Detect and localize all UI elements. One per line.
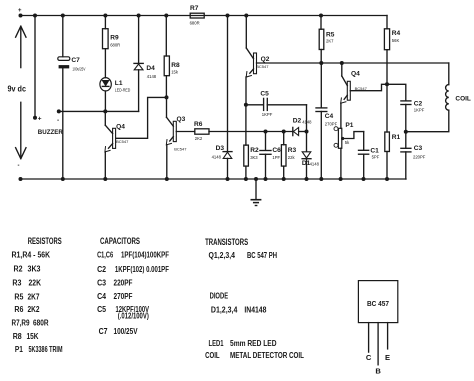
wire +9V top rail [21, 15, 388, 17]
capacitor C4 [316, 63, 338, 181]
wire 0V bottom rail [21, 178, 407, 180]
svg-text:680R: 680R [33, 318, 49, 327]
svg-text:CAPACITORS: CAPACITORS [100, 236, 140, 246]
9v dc source arrow down [16, 102, 26, 158]
svg-text:P1: P1 [15, 345, 23, 354]
svg-text:COIL: COIL [455, 96, 471, 103]
svg-text:BC547: BC547 [174, 146, 187, 151]
svg-text:R5: R5 [14, 292, 23, 301]
svg-text:C6: C6 [272, 147, 281, 154]
svg-text:BUZZER: BUZZER [38, 129, 63, 136]
svg-text:LED-RED: LED-RED [115, 88, 131, 93]
svg-text:2K2: 2K2 [195, 136, 203, 141]
svg-text:R2: R2 [250, 147, 259, 154]
svg-text:C3: C3 [414, 145, 423, 152]
svg-text:R8: R8 [171, 62, 180, 69]
svg-text:R6: R6 [14, 305, 23, 314]
svg-text:2K7: 2K7 [326, 39, 334, 44]
svg-text:-: - [57, 117, 59, 124]
svg-text:Q4: Q4 [116, 124, 125, 131]
diode D1 [302, 132, 320, 182]
svg-text:R4: R4 [392, 30, 401, 37]
svg-text:R2: R2 [14, 265, 23, 274]
svg-text:15K: 15K [27, 332, 39, 341]
svg-text:RESISTORS: RESISTORS [28, 236, 62, 246]
svg-text:L1: L1 [115, 80, 123, 87]
wire buzzer plus from rail [34, 16, 36, 118]
wire LED cathode to collector node [104, 91, 106, 111]
wire collector node to D4 anode [105, 110, 138, 112]
resistor R5 [319, 14, 335, 64]
svg-text:22K: 22K [29, 279, 42, 288]
svg-text:D3: D3 [216, 145, 225, 152]
junction buzzer plus on rail [33, 14, 37, 18]
resistor R6 [176, 121, 209, 141]
svg-text:15k: 15k [171, 69, 179, 74]
svg-text:BC547: BC547 [116, 139, 129, 144]
svg-text:56K: 56K [392, 38, 400, 43]
svg-text:COIL: COIL [205, 351, 220, 360]
svg-text:B: B [375, 367, 381, 376]
svg-text:BC 457: BC 457 [367, 299, 389, 308]
legend capacitors column [97, 236, 169, 336]
svg-text:5k: 5k [345, 140, 350, 145]
svg-text:4148: 4148 [212, 154, 222, 159]
capacitor C1 [359, 132, 380, 181]
svg-text:4148: 4148 [302, 119, 312, 124]
svg-text:C2: C2 [97, 265, 106, 274]
svg-text:1KPF: 1KPF [414, 107, 425, 112]
node buzzer plus terminal [33, 116, 42, 123]
svg-text:3K3: 3K3 [250, 155, 258, 160]
svg-text:R7,R9: R7,R9 [12, 318, 30, 327]
wire Q1 base to R4 node [350, 84, 387, 90]
svg-text:Q3: Q3 [177, 116, 186, 123]
node buzzer minus terminal [57, 109, 61, 124]
svg-text:100u/25V: 100u/25V [72, 66, 85, 71]
svg-text:R3: R3 [12, 279, 21, 288]
LED L1 [100, 78, 130, 93]
svg-text:BC 547 PH: BC 547 PH [247, 251, 277, 260]
svg-text:R5: R5 [326, 31, 335, 38]
svg-text:R1,R4 -: R1,R4 - [12, 250, 36, 259]
pin B [375, 323, 381, 376]
junction R5 bottom on base bus [319, 61, 323, 65]
transistor Q2 [244, 14, 269, 105]
svg-text:IN4148: IN4148 [244, 305, 266, 314]
capacitor C7 [58, 14, 86, 182]
svg-text:C4: C4 [97, 292, 106, 301]
wire Q4 base to R8 node [116, 97, 167, 138]
svg-text:22k: 22k [288, 155, 296, 160]
svg-text:1PF(104)100KPF: 1PF(104)100KPF [121, 250, 169, 259]
legend transistors column [205, 237, 304, 360]
svg-text:C7: C7 [71, 57, 80, 64]
svg-text:C: C [366, 353, 372, 362]
svg-text:R1: R1 [392, 134, 401, 141]
resistor R2 [244, 105, 259, 181]
pin E [385, 323, 390, 362]
resistor R3 [281, 130, 296, 182]
svg-text:R3: R3 [288, 147, 297, 154]
junction R8 bottom node [165, 95, 169, 99]
diode D2 [293, 117, 312, 135]
svg-text:1KPF(102) 0.001PF: 1KPF(102) 0.001PF [115, 265, 169, 274]
svg-text:BC547: BC547 [256, 64, 269, 69]
svg-text:Q1,2,3,4: Q1,2,3,4 [209, 251, 236, 260]
svg-text:C1,C6: C1,C6 [97, 250, 113, 259]
svg-text:C3: C3 [97, 279, 106, 288]
svg-text:680R: 680R [190, 21, 200, 26]
transistor Q4 [103, 111, 129, 181]
svg-text:220PF: 220PF [114, 279, 133, 288]
9v dc source arrow up [16, 26, 26, 67]
svg-text:+: + [18, 8, 22, 14]
transistor Q3 [165, 97, 187, 181]
trimmer P1 [334, 122, 364, 181]
svg-text:1KPF: 1KPF [262, 112, 273, 117]
pin C [366, 323, 372, 362]
svg-text:TRANSISTORS: TRANSISTORS [205, 237, 248, 247]
svg-text:270PF: 270PF [114, 292, 133, 301]
svg-text:+: + [38, 116, 42, 123]
svg-text:DIODE: DIODE [210, 292, 229, 301]
svg-text:Q2: Q2 [261, 56, 270, 63]
svg-text:3K3: 3K3 [28, 265, 41, 274]
resistor R1 [385, 84, 401, 181]
transistor Q1 [340, 61, 368, 128]
svg-text:5mm RED LED: 5mm RED LED [230, 339, 277, 348]
svg-text:100/25V: 100/25V [114, 327, 139, 336]
svg-text:R7: R7 [190, 5, 199, 12]
svg-text:R6: R6 [194, 121, 203, 128]
wire R6 to D2 net [209, 131, 293, 133]
svg-text:METAL DETECTOR COIL: METAL DETECTOR COIL [230, 351, 304, 360]
svg-text:C5: C5 [97, 305, 106, 314]
coil [406, 63, 471, 132]
svg-text:5K3386 TRIM: 5K3386 TRIM [29, 345, 63, 354]
svg-text:9v dc: 9v dc [8, 83, 27, 93]
resistor R8 [164, 14, 180, 98]
diode D4 [134, 14, 157, 112]
diode D3 [212, 14, 232, 182]
svg-text:D4: D4 [146, 65, 155, 72]
svg-text:C4: C4 [325, 113, 334, 120]
legend resistors column [12, 236, 63, 354]
transistor package BC457 outline [358, 281, 397, 323]
svg-text:LED1: LED1 [209, 339, 224, 348]
svg-text:R8: R8 [13, 332, 22, 341]
junction D2 anode node [305, 130, 309, 134]
junction coil / C2 / C3 node [404, 130, 408, 134]
svg-text:Q4: Q4 [351, 70, 360, 77]
svg-text:270PF: 270PF [325, 121, 338, 126]
svg-text:5PF: 5PF [372, 154, 380, 159]
svg-text:1PF: 1PF [272, 155, 280, 160]
svg-text:680R: 680R [110, 42, 120, 47]
svg-text:4148: 4148 [310, 162, 320, 167]
capacitor C6 [260, 130, 281, 182]
junction Q1 base / R4 node [385, 82, 389, 86]
svg-text:-: - [18, 163, 20, 169]
capacitor C2 [387, 84, 425, 131]
capacitor C3 [401, 132, 426, 179]
resistor R9 [103, 14, 121, 78]
svg-text:4148: 4148 [147, 74, 157, 79]
svg-text:56K: 56K [38, 250, 51, 259]
wire buzzer minus to Q4 collector node [59, 110, 106, 112]
node battery plus [18, 8, 23, 18]
node battery minus [18, 163, 23, 181]
svg-text:220PF: 220PF [413, 154, 426, 159]
capacitor C5 [246, 91, 307, 117]
svg-text:R9: R9 [110, 35, 119, 42]
svg-text:C2: C2 [414, 100, 423, 107]
junction Q2 emitter / C5 node [244, 103, 248, 107]
svg-text:(.012/100V): (.012/100V) [118, 311, 149, 320]
ground [251, 177, 260, 206]
wire Q2 base bus [257, 62, 449, 64]
svg-text:C7: C7 [99, 327, 108, 336]
svg-text:E: E [385, 353, 390, 362]
svg-text:P1: P1 [345, 122, 353, 129]
wire C5 node down to D2 anode node [306, 105, 308, 132]
svg-text:2K7: 2K7 [28, 292, 40, 301]
junction Q4 collector node [103, 109, 107, 113]
resistor R4 [384, 16, 400, 85]
svg-text:D1,2,3,4: D1,2,3,4 [211, 305, 238, 314]
svg-text:2K2: 2K2 [28, 305, 40, 314]
svg-text:C5: C5 [260, 91, 269, 98]
svg-text:D2: D2 [293, 117, 302, 124]
resistor R7 [190, 5, 205, 26]
